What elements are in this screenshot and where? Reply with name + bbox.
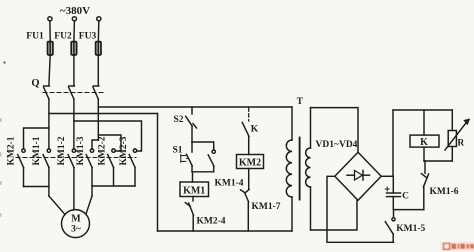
main contact KM1-2 xyxy=(68,149,76,210)
svg-text:R: R xyxy=(457,139,464,149)
wire phase3 jog to KM1-3 xyxy=(92,140,98,149)
contact K xyxy=(242,108,249,155)
coil KM2 xyxy=(237,155,264,169)
wire phase3 top rail to control and transformer xyxy=(98,106,292,108)
svg-text:KM2-2: KM2-2 xyxy=(98,136,108,165)
switch Q pole 2 xyxy=(69,85,75,87)
svg-text:KM1: KM1 xyxy=(183,186,205,197)
switch S1 left contact xyxy=(186,142,192,172)
relay coil K xyxy=(410,135,439,147)
motor M 3~ xyxy=(62,210,90,238)
transformer primary winding xyxy=(286,107,292,231)
capacitor C xyxy=(387,193,401,210)
wire plus junction up to K R rail xyxy=(392,110,394,176)
diode inside bridge xyxy=(347,170,370,180)
wire secondary top to bridge xyxy=(311,108,359,153)
wire bridge plus to junction xyxy=(381,175,393,177)
wire L1 to FU1 xyxy=(49,21,51,42)
switch Q pole 3 xyxy=(93,85,99,87)
wire join KM2-1 KM1-1 bottoms xyxy=(24,186,49,188)
wire phase2 below Q xyxy=(73,99,75,149)
control left rail xyxy=(157,114,159,232)
svg-text:KM1-7: KM1-7 xyxy=(251,202,280,212)
wire diagonal to motor right xyxy=(86,196,92,214)
wire FU2 to Q xyxy=(73,55,75,85)
main contact KM2-1 xyxy=(18,149,25,187)
wire diagonal to motor left xyxy=(49,196,65,215)
wire junction to capacitor xyxy=(392,176,394,193)
svg-text:C: C xyxy=(402,192,409,202)
wire L2 to FU2 xyxy=(73,21,76,43)
wire S1 bottom join xyxy=(192,171,214,173)
fuse FU2 xyxy=(71,42,76,55)
svg-text:KM1-1: KM1-1 xyxy=(32,136,42,165)
wire L3 to FU3 xyxy=(97,21,100,43)
actuator symbol of S1 xyxy=(181,155,190,163)
svg-text:FU1: FU1 xyxy=(26,32,44,42)
svg-text:KM1-6: KM1-6 xyxy=(429,187,458,197)
switch S1 right contact xyxy=(208,150,215,172)
main contact KM2-3 xyxy=(129,149,137,186)
contact KM1-6 (NC) xyxy=(421,161,428,210)
terminal L1 xyxy=(48,17,52,21)
transformer secondary winding xyxy=(306,108,311,230)
main contact KM1-3 xyxy=(86,149,94,196)
wire phase2 branch to KM2-3 xyxy=(74,121,142,151)
wire phase1 below Q xyxy=(48,99,50,149)
svg-text:K: K xyxy=(420,137,428,148)
svg-text:FU2: FU2 xyxy=(54,32,72,42)
contact KM1-7 xyxy=(245,193,249,231)
gang dashed link of main contacts xyxy=(16,157,136,159)
wire KM1 coil to KM2-4 xyxy=(192,197,194,202)
svg-text:M: M xyxy=(71,214,81,225)
switch Q gang dashed link xyxy=(43,92,104,94)
wire phase1 branch to KM2-1 xyxy=(24,128,49,149)
wire join KM1-3 KM2-2 KM2-3 bottoms xyxy=(92,185,135,187)
main contact KM2-2 xyxy=(108,149,116,186)
svg-text:S1: S1 xyxy=(172,146,182,156)
contact KM2-4 (NC) xyxy=(185,203,193,231)
wire phase3 below Q xyxy=(97,99,99,140)
control bottom rail xyxy=(158,230,293,232)
wire to relay K coil xyxy=(423,110,425,135)
edge smudges xyxy=(0,61,6,217)
svg-text:K: K xyxy=(251,125,259,135)
svg-text:KM1-4: KM1-4 xyxy=(214,179,243,189)
button S2 (NC) xyxy=(186,107,197,142)
svg-text:~380V: ~380V xyxy=(60,5,90,17)
rheostat R xyxy=(445,110,469,161)
svg-text:3~: 3~ xyxy=(71,225,81,235)
coil KM1 xyxy=(180,182,209,197)
wire K coil bottom xyxy=(423,147,425,161)
rail K R top xyxy=(393,109,452,111)
terminal L3 xyxy=(97,17,101,21)
wire S1 right branch down xyxy=(213,142,215,150)
svg-text:T: T xyxy=(297,97,304,107)
transformer core xyxy=(299,138,301,200)
svg-text:Q: Q xyxy=(31,78,39,89)
svg-text:KM1-2: KM1-2 xyxy=(57,136,67,165)
watermark xyxy=(440,241,474,251)
wire phase1 tap to control left rail xyxy=(49,113,158,115)
svg-text:KM1-5: KM1-5 xyxy=(396,224,425,234)
svg-text:KM2-4: KM2-4 xyxy=(196,217,225,227)
contact KM1-4 (NC) xyxy=(241,189,250,193)
svg-text:S2: S2 xyxy=(173,115,183,125)
node wire C bottom to KM1-6 xyxy=(393,209,424,211)
node wire below K and R xyxy=(424,160,452,162)
wire bridge minus loop to KM1-5 xyxy=(327,176,394,242)
fuse FU3 xyxy=(96,42,101,55)
wire secondary bottom to bridge bottom xyxy=(311,200,358,230)
terminal L2 xyxy=(72,17,76,21)
switch Q pole 1 xyxy=(44,85,50,87)
wire FU3 to Q xyxy=(97,55,99,85)
plus sign of C xyxy=(385,187,389,191)
contact KM1-5 xyxy=(385,210,395,243)
wire S1 branch top xyxy=(192,141,214,143)
svg-text:KM2-1: KM2-1 xyxy=(7,136,17,165)
main contact KM1-1 xyxy=(43,149,51,196)
wire phase3 branch to KM2-2 xyxy=(98,135,121,151)
svg-text:VD1~VD4: VD1~VD4 xyxy=(316,140,358,150)
wire S1 to KM1 coil xyxy=(192,172,194,182)
svg-text:FU3: FU3 xyxy=(79,32,97,42)
wire FU1 to Q xyxy=(49,55,50,85)
bridge rectifier VD1~VD4 xyxy=(335,152,381,200)
fuse FU1 xyxy=(48,42,53,55)
svg-text:KM1-3: KM1-3 xyxy=(76,136,86,165)
wire KM2 coil to KM1-4 xyxy=(248,169,250,190)
svg-text:KM2-3: KM2-3 xyxy=(119,136,129,165)
svg-text:KM2: KM2 xyxy=(239,158,261,169)
